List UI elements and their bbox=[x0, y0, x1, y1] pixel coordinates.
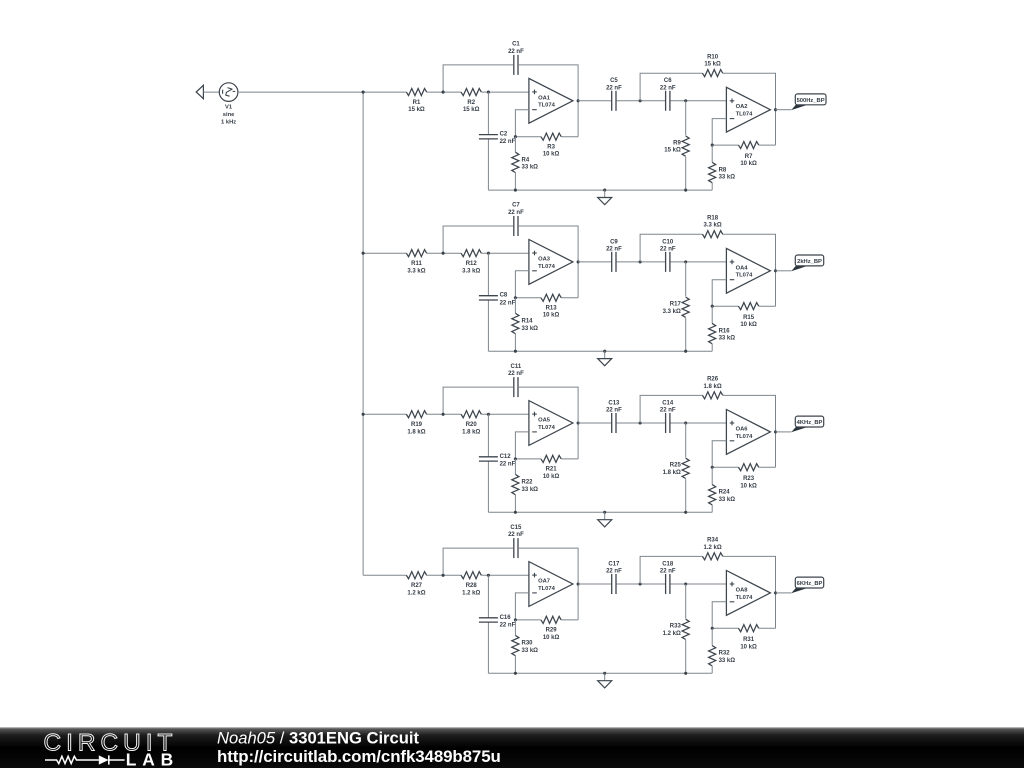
svg-text:1.8 kΩ: 1.8 kΩ bbox=[462, 429, 480, 435]
resistor R12 3.3 k&#937; bbox=[461, 250, 481, 275]
junction bbox=[514, 189, 517, 192]
wire bbox=[514, 298, 516, 314]
wire bbox=[514, 495, 516, 513]
wire bbox=[443, 226, 513, 253]
svg-text:500Hz_BP: 500Hz_BP bbox=[797, 98, 825, 104]
capacitor C11 22 nF bbox=[508, 364, 524, 397]
svg-text:3.3 kΩ: 3.3 kΩ bbox=[704, 223, 722, 229]
capacitor C18 22 nF bbox=[660, 561, 676, 594]
ground bbox=[598, 673, 612, 688]
junction bbox=[362, 252, 365, 255]
op-amp OA5 TL074 bbox=[529, 401, 573, 446]
svg-text:C13: C13 bbox=[608, 400, 620, 406]
wire bbox=[362, 92, 364, 575]
wire bbox=[514, 459, 516, 475]
svg-text:22 nF: 22 nF bbox=[508, 49, 524, 55]
op-amp OA1 TL074 bbox=[529, 78, 573, 123]
svg-text:R28: R28 bbox=[466, 583, 478, 589]
svg-text:R29: R29 bbox=[546, 628, 558, 634]
svg-text:22 nF: 22 nF bbox=[500, 622, 516, 628]
svg-text:33 kΩ: 33 kΩ bbox=[719, 336, 736, 342]
ground bbox=[598, 351, 612, 366]
svg-text:10 kΩ: 10 kΩ bbox=[543, 474, 560, 480]
wire bbox=[578, 100, 611, 102]
svg-text:R9: R9 bbox=[673, 140, 681, 146]
svg-text:R3: R3 bbox=[547, 144, 555, 150]
svg-text:R25: R25 bbox=[670, 463, 682, 469]
wire bbox=[515, 110, 529, 137]
svg-text:33 kΩ: 33 kΩ bbox=[522, 165, 539, 171]
capacitor C7 22 nF bbox=[508, 203, 524, 236]
net flag 4KHz_BP bbox=[791, 416, 824, 432]
svg-text:1.8 kΩ: 1.8 kΩ bbox=[663, 470, 681, 476]
junction bbox=[487, 413, 490, 416]
resistor R3 10 k&#937; bbox=[541, 133, 561, 157]
wire bbox=[723, 395, 776, 467]
resistor R9 15 k&#937; bbox=[664, 136, 689, 156]
wire bbox=[759, 627, 776, 629]
junction bbox=[514, 296, 517, 299]
capacitor C13 22 nF bbox=[606, 400, 622, 433]
svg-text:10 kΩ: 10 kΩ bbox=[740, 644, 757, 650]
wire bbox=[712, 144, 738, 146]
resistor R21 10 k&#937; bbox=[541, 455, 561, 479]
net flag 500Hz_BP bbox=[791, 94, 826, 110]
wire bbox=[671, 422, 727, 424]
svg-text:22 nF: 22 nF bbox=[500, 300, 516, 306]
wire bbox=[711, 628, 713, 645]
wire bbox=[685, 479, 687, 512]
svg-text:R27: R27 bbox=[411, 583, 423, 589]
net flag 2kHz_BP bbox=[791, 255, 824, 271]
input port arrow bbox=[196, 85, 203, 98]
svg-text:OA5: OA5 bbox=[538, 418, 551, 424]
wire bbox=[363, 413, 406, 415]
svg-text:R33: R33 bbox=[670, 624, 682, 630]
junction bbox=[362, 413, 365, 416]
svg-text:C17: C17 bbox=[608, 561, 620, 567]
wire bbox=[427, 91, 461, 93]
wire bbox=[577, 262, 579, 298]
wire bbox=[723, 556, 776, 628]
svg-text:C11: C11 bbox=[511, 364, 522, 370]
junction bbox=[577, 421, 580, 424]
svg-text:R12: R12 bbox=[466, 261, 478, 267]
wire bbox=[514, 620, 516, 636]
svg-text:R8: R8 bbox=[719, 167, 727, 173]
wire bbox=[776, 592, 792, 594]
junction bbox=[442, 252, 445, 255]
svg-text:10 kΩ: 10 kΩ bbox=[543, 152, 560, 158]
op-amp OA3 TL074 bbox=[529, 240, 573, 285]
wire bbox=[671, 261, 727, 263]
svg-text:10 kΩ: 10 kΩ bbox=[740, 322, 757, 328]
svg-text:33 kΩ: 33 kΩ bbox=[719, 497, 736, 503]
junction bbox=[514, 350, 517, 353]
svg-text:22 nF: 22 nF bbox=[660, 569, 676, 575]
svg-text:TL074: TL074 bbox=[538, 103, 556, 109]
wire bbox=[487, 253, 489, 296]
wire bbox=[488, 511, 712, 513]
wire bbox=[712, 280, 726, 307]
wire bbox=[427, 413, 461, 415]
svg-text:33 kΩ: 33 kΩ bbox=[522, 648, 539, 654]
svg-text:OA8: OA8 bbox=[736, 587, 749, 593]
wire bbox=[519, 226, 578, 262]
resistor R26 1.8 k&#937; bbox=[702, 377, 722, 399]
wire bbox=[515, 593, 529, 620]
junction bbox=[442, 413, 445, 416]
svg-text:R10: R10 bbox=[707, 54, 719, 60]
junction bbox=[362, 91, 365, 94]
wire bbox=[238, 91, 407, 93]
svg-text:15 kΩ: 15 kΩ bbox=[704, 62, 721, 68]
svg-text:R18: R18 bbox=[707, 216, 719, 222]
op-amp OA2 TL074 bbox=[726, 87, 770, 132]
capacitor C17 22 nF bbox=[606, 561, 622, 594]
resistor R32 33 k&#937; bbox=[709, 646, 736, 666]
svg-text:TL074: TL074 bbox=[736, 273, 754, 279]
svg-text:22 nF: 22 nF bbox=[500, 139, 516, 145]
svg-text:C16: C16 bbox=[500, 615, 512, 621]
junction bbox=[684, 189, 687, 192]
wire bbox=[578, 583, 611, 585]
wire bbox=[515, 619, 541, 621]
wire bbox=[711, 344, 713, 351]
svg-text:R19: R19 bbox=[411, 422, 423, 428]
wire bbox=[685, 584, 687, 619]
wire bbox=[443, 387, 513, 414]
wire bbox=[561, 619, 578, 621]
voltage source V1 sine 1 kHz bbox=[219, 83, 238, 126]
capacitor C15 22 nF bbox=[508, 525, 524, 558]
resistor R8 33 k&#937; bbox=[709, 162, 736, 182]
wire bbox=[759, 305, 776, 307]
junction bbox=[442, 91, 445, 94]
wire bbox=[487, 622, 489, 673]
wire bbox=[671, 583, 727, 585]
wire bbox=[776, 270, 792, 272]
wire bbox=[481, 91, 529, 93]
resistor R24 33 k&#937; bbox=[709, 485, 736, 505]
wire bbox=[711, 467, 713, 484]
junction bbox=[514, 511, 517, 514]
wire bbox=[561, 297, 578, 299]
wire bbox=[685, 157, 687, 190]
svg-text:OA2: OA2 bbox=[736, 104, 748, 110]
wire bbox=[515, 297, 541, 299]
svg-text:22 nF: 22 nF bbox=[606, 408, 622, 414]
junction bbox=[514, 672, 517, 675]
svg-text:33 kΩ: 33 kΩ bbox=[719, 175, 736, 181]
resistor R33 1.2 k&#937; bbox=[663, 619, 690, 639]
resistor R28 1.2 k&#937; bbox=[461, 572, 481, 597]
resistor R2 15 k&#937; bbox=[461, 88, 481, 113]
resistor R15 10 k&#937; bbox=[738, 303, 758, 329]
svg-text:15 kΩ: 15 kΩ bbox=[408, 107, 425, 113]
svg-text:10 kΩ: 10 kΩ bbox=[543, 313, 560, 319]
svg-text:1.8 kΩ: 1.8 kΩ bbox=[704, 384, 722, 390]
junction bbox=[639, 99, 642, 102]
svg-text:R13: R13 bbox=[546, 306, 558, 312]
svg-text:R17: R17 bbox=[670, 302, 682, 308]
capacitor C14 22 nF bbox=[660, 400, 676, 433]
wire bbox=[481, 413, 529, 415]
svg-text:TL074: TL074 bbox=[538, 425, 556, 431]
svg-text:C10: C10 bbox=[662, 239, 674, 245]
wire bbox=[519, 548, 578, 584]
wire bbox=[712, 441, 726, 468]
svg-text:22 nF: 22 nF bbox=[508, 532, 524, 538]
wire bbox=[203, 91, 219, 93]
svg-text:V1: V1 bbox=[225, 105, 233, 111]
svg-text:C8: C8 bbox=[500, 293, 508, 299]
junction bbox=[514, 618, 517, 621]
wire bbox=[723, 73, 776, 145]
capacitor C9 22 nF bbox=[606, 239, 622, 272]
ground bbox=[598, 190, 612, 205]
resistor R20 1.8 k&#937; bbox=[461, 411, 481, 436]
capacitor C8 22 nF bbox=[479, 293, 516, 307]
wire bbox=[759, 144, 776, 146]
svg-text:R16: R16 bbox=[719, 329, 731, 335]
resistor R13 10 k&#937; bbox=[541, 294, 561, 318]
svg-text:4KHz_BP: 4KHz_BP bbox=[797, 420, 823, 426]
wire bbox=[514, 334, 516, 352]
junction bbox=[603, 189, 606, 192]
wire bbox=[481, 574, 529, 576]
svg-text:R7: R7 bbox=[745, 154, 753, 160]
wire bbox=[685, 101, 687, 136]
wire bbox=[617, 261, 665, 263]
svg-text:22 nF: 22 nF bbox=[606, 247, 622, 253]
wire bbox=[519, 65, 578, 101]
junction bbox=[684, 260, 687, 263]
svg-text:3.3 kΩ: 3.3 kΩ bbox=[407, 268, 425, 274]
wire bbox=[561, 136, 578, 138]
svg-text:22 nF: 22 nF bbox=[606, 85, 622, 91]
junction bbox=[603, 350, 606, 353]
svg-text:22 nF: 22 nF bbox=[508, 210, 524, 216]
resistor R23 10 k&#937; bbox=[738, 464, 758, 490]
svg-text:C2: C2 bbox=[500, 132, 508, 138]
svg-text:33 kΩ: 33 kΩ bbox=[522, 487, 539, 493]
resistor R16 33 k&#937; bbox=[709, 323, 736, 343]
junction bbox=[711, 305, 714, 308]
op-amp OA6 TL074 bbox=[726, 410, 770, 455]
wire bbox=[515, 432, 529, 459]
svg-text:R14: R14 bbox=[522, 319, 534, 325]
wire bbox=[723, 234, 776, 306]
wire bbox=[577, 423, 579, 459]
svg-text:22 nF: 22 nF bbox=[606, 569, 622, 575]
wire bbox=[427, 252, 461, 254]
svg-text:R15: R15 bbox=[743, 315, 755, 321]
svg-text:1.2 kΩ: 1.2 kΩ bbox=[407, 590, 425, 596]
wire bbox=[776, 109, 792, 111]
net flag 6KHz_BP bbox=[791, 577, 824, 593]
wire bbox=[488, 672, 712, 674]
svg-text:15 kΩ: 15 kΩ bbox=[463, 107, 480, 113]
svg-text:22 nF: 22 nF bbox=[660, 85, 676, 91]
svg-text:C6: C6 bbox=[664, 78, 672, 84]
wire bbox=[363, 574, 406, 576]
junction bbox=[774, 269, 777, 272]
wire bbox=[711, 145, 713, 162]
resistor R14 33 k&#937; bbox=[512, 313, 538, 333]
junction bbox=[711, 627, 714, 630]
wire bbox=[712, 305, 738, 307]
svg-text:Noah05 / 3301ENG Circuit: Noah05 / 3301ENG Circuit bbox=[217, 729, 419, 748]
svg-text:10 kΩ: 10 kΩ bbox=[543, 635, 560, 641]
junction bbox=[639, 421, 642, 424]
junction bbox=[774, 108, 777, 111]
svg-text:2kHz_BP: 2kHz_BP bbox=[797, 259, 822, 265]
wire bbox=[443, 548, 513, 575]
svg-text:R26: R26 bbox=[707, 377, 719, 383]
svg-text:22 nF: 22 nF bbox=[660, 408, 676, 414]
capacitor C6 22 nF bbox=[660, 78, 676, 111]
junction bbox=[577, 582, 580, 585]
wire bbox=[363, 252, 406, 254]
svg-text:1.2 kΩ: 1.2 kΩ bbox=[704, 545, 722, 551]
wire bbox=[617, 100, 665, 102]
wire bbox=[759, 466, 776, 468]
wire bbox=[640, 73, 702, 101]
junction bbox=[514, 457, 517, 460]
svg-text:C15: C15 bbox=[510, 525, 522, 531]
resistor R4 33 k&#937; bbox=[512, 152, 538, 172]
junction bbox=[684, 582, 687, 585]
svg-text:22 nF: 22 nF bbox=[500, 461, 516, 467]
junction bbox=[577, 260, 580, 263]
junction bbox=[487, 91, 490, 94]
svg-text:sine: sine bbox=[223, 112, 235, 118]
svg-text:R22: R22 bbox=[522, 480, 534, 486]
svg-text:R31: R31 bbox=[743, 637, 755, 643]
svg-text:C7: C7 bbox=[512, 203, 520, 209]
wire bbox=[685, 640, 687, 673]
svg-text:TL074: TL074 bbox=[538, 586, 556, 592]
junction bbox=[639, 582, 642, 585]
capacitor C10 22 nF bbox=[660, 239, 676, 272]
resistor R29 10 k&#937; bbox=[541, 616, 561, 640]
junction bbox=[603, 672, 606, 675]
svg-text:TL074: TL074 bbox=[736, 595, 754, 601]
wire bbox=[617, 422, 665, 424]
wire bbox=[561, 458, 578, 460]
svg-text:10 kΩ: 10 kΩ bbox=[740, 483, 757, 489]
svg-text:C14: C14 bbox=[662, 400, 674, 406]
resistor R11 3.3 k&#937; bbox=[406, 250, 426, 275]
wire bbox=[487, 575, 489, 618]
junction bbox=[684, 511, 687, 514]
svg-text:3.3 kΩ: 3.3 kΩ bbox=[663, 309, 681, 315]
wire bbox=[487, 139, 489, 190]
wire bbox=[519, 387, 578, 423]
svg-text:C18: C18 bbox=[662, 561, 674, 567]
svg-text:R23: R23 bbox=[743, 476, 755, 482]
wire bbox=[640, 556, 702, 584]
wire bbox=[577, 101, 579, 137]
junction bbox=[711, 466, 714, 469]
svg-text:R21: R21 bbox=[546, 467, 558, 473]
svg-text:1.2 kΩ: 1.2 kΩ bbox=[462, 590, 480, 596]
wire bbox=[481, 252, 529, 254]
wire bbox=[487, 92, 489, 135]
svg-text:33 kΩ: 33 kΩ bbox=[522, 326, 539, 332]
svg-text:6KHz_BP: 6KHz_BP bbox=[797, 581, 823, 587]
wire bbox=[685, 423, 687, 458]
wire bbox=[671, 100, 727, 102]
svg-text:1 kHz: 1 kHz bbox=[221, 120, 236, 126]
op-amp OA7 TL074 bbox=[529, 562, 573, 607]
wire bbox=[577, 584, 579, 620]
svg-text:OA1: OA1 bbox=[538, 95, 551, 101]
junction bbox=[487, 574, 490, 577]
svg-text:1.8 kΩ: 1.8 kΩ bbox=[407, 429, 425, 435]
svg-text:R1: R1 bbox=[413, 100, 421, 106]
junction bbox=[684, 672, 687, 675]
svg-text:TL074: TL074 bbox=[538, 264, 556, 270]
resistor R18 3.3 k&#937; bbox=[702, 216, 722, 238]
junction bbox=[577, 99, 580, 102]
wire bbox=[514, 656, 516, 674]
capacitor C5 22 nF bbox=[606, 78, 622, 111]
svg-text:33 kΩ: 33 kΩ bbox=[719, 658, 736, 664]
junction bbox=[774, 430, 777, 433]
resistor R34 1.2 k&#937; bbox=[702, 538, 722, 560]
capacitor C1 22 nF bbox=[508, 42, 524, 75]
resistor R7 10 k&#937; bbox=[738, 141, 758, 167]
resistor R19 1.8 k&#937; bbox=[406, 411, 426, 436]
ground bbox=[598, 512, 612, 527]
junction bbox=[639, 260, 642, 263]
wire bbox=[443, 65, 513, 92]
svg-text:TL074: TL074 bbox=[736, 434, 754, 440]
svg-text:15 kΩ: 15 kΩ bbox=[664, 148, 681, 154]
svg-text:C5: C5 bbox=[610, 78, 618, 84]
resistor R1 15 k&#937; bbox=[406, 88, 426, 113]
wire bbox=[487, 414, 489, 457]
svg-text:R11: R11 bbox=[411, 261, 422, 267]
wire bbox=[776, 431, 792, 433]
svg-text:R24: R24 bbox=[719, 490, 731, 496]
svg-text:OA6: OA6 bbox=[736, 426, 749, 432]
svg-text:3.3 kΩ: 3.3 kΩ bbox=[462, 268, 480, 274]
svg-text:C9: C9 bbox=[610, 239, 618, 245]
wire bbox=[712, 627, 738, 629]
svg-text:OA4: OA4 bbox=[736, 265, 749, 271]
capacitor C2 22 nF bbox=[479, 132, 516, 146]
svg-text:22 nF: 22 nF bbox=[508, 371, 524, 377]
svg-text:1.2 kΩ: 1.2 kΩ bbox=[663, 631, 681, 637]
wire bbox=[487, 300, 489, 351]
resistor R27 1.2 k&#937; bbox=[406, 572, 426, 597]
wire bbox=[515, 271, 529, 298]
svg-text:R4: R4 bbox=[522, 158, 530, 164]
capacitor C16 22 nF bbox=[479, 615, 516, 629]
junction bbox=[603, 511, 606, 514]
CircuitLab logo bbox=[44, 729, 179, 768]
resistor R30 33 k&#937; bbox=[512, 635, 538, 655]
wire bbox=[712, 602, 726, 629]
wire bbox=[515, 458, 541, 460]
op-amp OA4 TL074 bbox=[726, 248, 770, 293]
wire bbox=[427, 574, 461, 576]
wire bbox=[578, 422, 611, 424]
resistor R22 33 k&#937; bbox=[512, 474, 538, 494]
